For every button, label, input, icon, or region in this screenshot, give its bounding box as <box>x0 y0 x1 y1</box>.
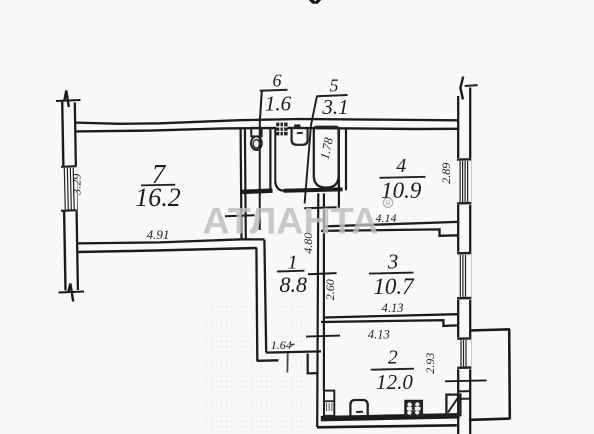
svg-text:4.91: 4.91 <box>147 227 170 242</box>
svg-text:4: 4 <box>396 155 406 177</box>
wire left outer wall <box>62 100 65 291</box>
svg-text:4.13: 4.13 <box>382 301 404 315</box>
wire hallway bottom wall outer <box>257 359 279 362</box>
svg-text:2.60: 2.60 <box>323 279 337 300</box>
door tick room 3 <box>308 273 337 274</box>
node break symbol bottom-left <box>59 292 85 293</box>
svg-text:12.0: 12.0 <box>376 370 413 394</box>
wire room3 bottom wall line <box>324 314 458 317</box>
wire right wall inner <box>457 96 459 434</box>
fridge diagonal square <box>446 395 460 416</box>
wire room2 top wall line with step <box>321 320 458 326</box>
door tick room 4 <box>304 207 336 208</box>
svg-text:3.29: 3.29 <box>69 174 83 196</box>
svg-text:5: 5 <box>330 76 339 96</box>
wire hallway bottom wall inner <box>266 351 321 352</box>
bath sink <box>292 124 308 144</box>
balcony outline <box>470 329 511 330</box>
wire hallway right wall line a <box>317 193 318 427</box>
svg-text:1.6: 1.6 <box>265 92 292 116</box>
leader line label 6 <box>260 91 262 230</box>
window left wall <box>61 166 78 211</box>
wire hallway right wall line b <box>323 193 325 390</box>
right wall lower caps <box>458 391 470 399</box>
wire left inner wall <box>75 103 78 291</box>
svg-text:3.1: 3.1 <box>321 95 348 119</box>
leader line label 5 <box>305 96 317 204</box>
window room 3 right wall <box>457 252 471 300</box>
svg-text:R: R <box>385 199 391 208</box>
balcony door tick <box>445 379 487 382</box>
wire hallway left wall outer <box>255 248 258 362</box>
wire room 7 right wall line a <box>240 129 243 240</box>
wire right wall outer <box>469 88 471 434</box>
wire bath bottom wall <box>284 189 343 190</box>
node break symbol top-right <box>465 84 478 87</box>
wire room3 top wall lower line with step <box>321 229 458 235</box>
door tick room 2 <box>306 336 340 337</box>
svg-text:4.13: 4.13 <box>368 327 390 341</box>
entrance door leaf <box>286 353 288 373</box>
wire room 4 left wall line b <box>345 130 347 191</box>
svg-text:16.2: 16.2 <box>135 183 181 212</box>
svg-text:2: 2 <box>388 347 398 369</box>
window room 2 right wall <box>457 337 471 369</box>
svg-text:АТЛАНТА: АТЛАНТА <box>203 200 379 242</box>
wire hallway left wall inner <box>264 240 266 353</box>
stove <box>405 401 422 417</box>
node break symbol top-left <box>56 100 81 101</box>
svg-text:3: 3 <box>387 250 399 274</box>
wire room2 bottom wall outer <box>317 425 457 427</box>
svg-text:1.64: 1.64 <box>271 338 292 352</box>
wire WC-bath divider line a <box>269 129 271 191</box>
wire top wall inner line <box>76 128 458 131</box>
room2 wall stub box <box>324 391 334 416</box>
watermark registered mark <box>383 198 392 207</box>
top edge mark <box>309 0 321 4</box>
svg-text:10.7: 10.7 <box>373 274 415 299</box>
svg-text:8.8: 8.8 <box>279 272 307 297</box>
wire room3 top wall upper line <box>325 222 458 227</box>
wire room2 bottom wall inner thick <box>321 416 460 419</box>
svg-text:4.14: 4.14 <box>376 211 397 225</box>
wire hallway bottom step <box>308 354 319 374</box>
toilet U1 <box>251 128 262 150</box>
window room 4 right wall <box>457 158 471 205</box>
wire WC-bath divider line b <box>274 129 276 183</box>
wire room 4 left wall line a <box>338 130 340 208</box>
door tick room 7 <box>225 215 255 216</box>
bathtub <box>314 127 339 188</box>
wire room 7 bottom wall outer <box>78 248 257 252</box>
vent shaft grid <box>276 123 287 136</box>
svg-text:6: 6 <box>273 71 282 91</box>
wire top wall outer line <box>76 119 458 124</box>
svg-text:2.89: 2.89 <box>439 163 453 184</box>
wire room 7 right wall line b <box>244 129 247 240</box>
svg-text:2.93: 2.93 <box>423 353 437 374</box>
wire room 7 bottom wall inner <box>78 239 265 243</box>
wire WC bottom wall <box>241 191 273 192</box>
kitchen sink <box>350 400 367 417</box>
bath door corner arc <box>275 182 284 191</box>
